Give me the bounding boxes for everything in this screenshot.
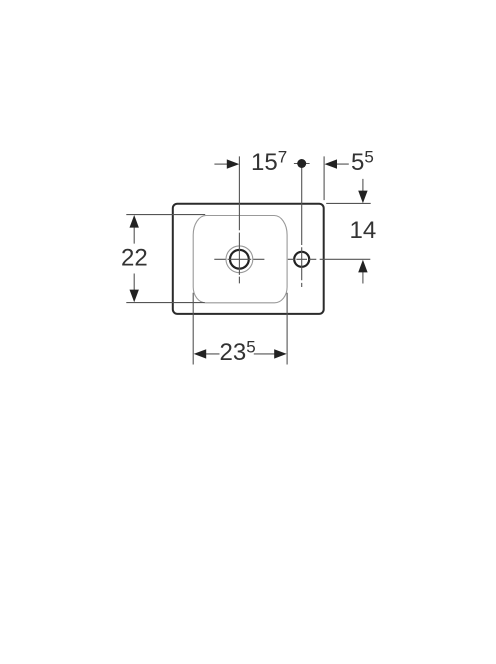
svg-text:55: 55 — [351, 148, 374, 177]
svg-text:22: 22 — [121, 245, 148, 272]
svg-text:235: 235 — [220, 338, 256, 367]
svg-text:157: 157 — [251, 148, 287, 177]
svg-text:14: 14 — [350, 217, 377, 244]
